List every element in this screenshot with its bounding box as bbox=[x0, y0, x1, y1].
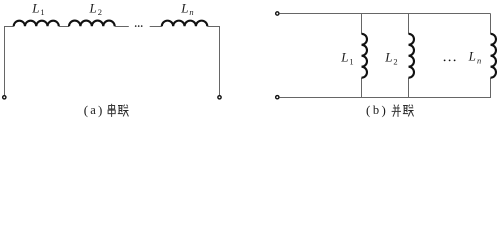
wire left vertical + top-left segment bbox=[5, 27, 14, 96]
terminal top-left (open circle) bbox=[276, 12, 279, 15]
svg-text:a: a bbox=[90, 103, 96, 117]
inductor Ln (series, 4 humps) bbox=[162, 21, 208, 27]
svg-text:1: 1 bbox=[349, 56, 353, 66]
inductor L2 (parallel, 4 humps) bbox=[409, 34, 414, 78]
svg-text:L: L bbox=[340, 49, 348, 64]
svg-text:n: n bbox=[477, 56, 481, 66]
wire between L1 and L2 bbox=[59, 26, 69, 28]
terminal right (open circle) bbox=[218, 96, 221, 99]
svg-text:1: 1 bbox=[40, 7, 44, 17]
inductor Ln (parallel, 4 humps) bbox=[491, 34, 496, 78]
svg-text:L: L bbox=[468, 49, 476, 64]
svg-text:b: b bbox=[373, 103, 379, 117]
terminal left (open circle) bbox=[3, 96, 6, 99]
svg-text:(: ( bbox=[366, 102, 370, 117]
hanzi 联 (lian) caption a bbox=[118, 105, 129, 117]
svg-text:L: L bbox=[89, 0, 97, 15]
terminal bottom-left (open circle) bbox=[276, 96, 279, 99]
svg-text:L: L bbox=[180, 0, 188, 15]
svg-text:L: L bbox=[31, 0, 39, 15]
ellipsis dots (parallel) bbox=[444, 60, 446, 62]
svg-text:n: n bbox=[189, 7, 193, 17]
inductor L1 (series, 4 humps) bbox=[14, 21, 59, 27]
wire top rail bbox=[280, 13, 491, 15]
hanzi 并 (bing) bbox=[392, 105, 401, 117]
inductor L2 (series, 4 humps) bbox=[69, 21, 115, 27]
svg-text:2: 2 bbox=[98, 7, 102, 17]
wire right edge stubs bbox=[490, 14, 492, 99]
inductor L1 (parallel, 4 humps) bbox=[362, 34, 367, 78]
wire after L2 bbox=[115, 26, 129, 28]
wire before Ln bbox=[150, 26, 162, 28]
hanzi 联 (lian) caption b bbox=[403, 105, 414, 117]
wire bottom rail bbox=[280, 97, 491, 99]
svg-text:L: L bbox=[384, 49, 392, 64]
svg-text:2: 2 bbox=[393, 56, 397, 66]
svg-text:): ) bbox=[98, 102, 102, 117]
wire top-right segment + right vertical bbox=[207, 27, 219, 96]
hanzi 串 (chuan) bbox=[108, 104, 115, 117]
svg-text:(: ( bbox=[84, 102, 88, 117]
wire branch 2 stubs bbox=[408, 14, 410, 99]
svg-text:): ) bbox=[382, 102, 386, 117]
ellipsis dots (series) bbox=[135, 25, 137, 27]
wire branch 1 stubs bbox=[361, 14, 363, 99]
